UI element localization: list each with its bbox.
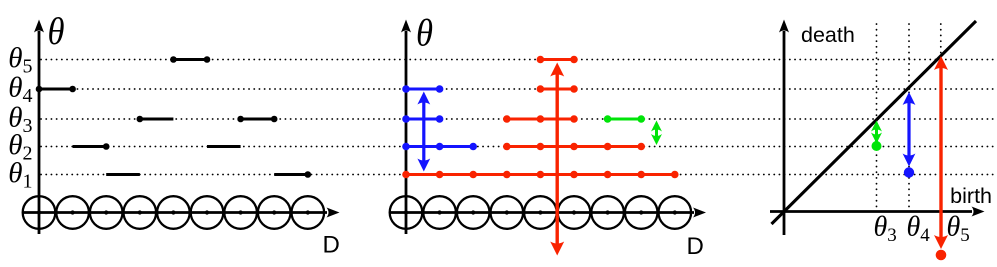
svg-text:death: death (801, 23, 855, 47)
svg-text:D: D (687, 233, 704, 260)
red bar level1 all dots (402, 171, 678, 179)
green bar level3 (604, 115, 645, 123)
cover ball M8 (625, 196, 658, 229)
bar level2 [c2,c3] dot right (73, 143, 110, 150)
cover ball M5 (524, 196, 557, 229)
red bar level3 (503, 115, 578, 123)
blue bar level2 (402, 143, 477, 151)
cover ball L4 (124, 196, 157, 229)
dotted level line theta_5 (41, 59, 996, 61)
red bar level5 (537, 56, 578, 64)
cover ball M4 (491, 196, 524, 229)
svg-text:D: D (323, 232, 340, 259)
cover ball L8 (258, 196, 291, 229)
dotted vertical line birth theta_5 (940, 24, 942, 208)
cover ball L2 (56, 196, 89, 229)
blue bar level3 (402, 115, 443, 123)
dotted level line theta_2 (41, 146, 996, 148)
blue persistence point and double arrow (theta4,theta1) (903, 92, 916, 178)
bar level5 [c5,c6] with end dots (170, 56, 210, 63)
green vertical double arrow (persistence of level3 class) (651, 121, 662, 146)
cover ball M7 (591, 196, 624, 229)
right panel death axis (779, 20, 789, 236)
cover ball M2 (423, 196, 456, 229)
bar level1 [c8,c9] dot right (274, 171, 311, 178)
cover ball M9 (659, 196, 692, 229)
dotted level line theta_3 (41, 118, 996, 120)
svg-text:θ: θ (416, 13, 433, 55)
cover ball L6 (191, 196, 224, 229)
green persistence point and double arrow (theta3,theta2) (871, 121, 882, 152)
cover ball L3 (90, 196, 123, 229)
svg-text:θ: θ (48, 11, 65, 53)
cover ball L1 (23, 196, 56, 229)
dotted level line theta_4 (41, 88, 996, 90)
red persistence point and double arrow (theta5, below axis) (934, 56, 948, 260)
dotted vertical line birth theta_3 (876, 24, 878, 208)
cover ball L7 (224, 196, 257, 229)
left panel D axis (23, 208, 340, 218)
cover ball L5 (157, 196, 190, 229)
blue vertical double arrow (persistence of level4 class) (417, 92, 430, 172)
red vertical double arrow (persistence of level5 class) (550, 63, 564, 256)
dotted level line theta_1 (41, 174, 996, 176)
middle panel D axis (390, 208, 706, 218)
svg-text:birth: birth (950, 184, 992, 208)
left panel theta axis (34, 20, 44, 235)
bar level1 [c3,c4] no dots (106, 173, 140, 176)
bar level2 [c6,c7] no dots (207, 145, 241, 148)
cover ball L9 (292, 196, 325, 229)
dotted vertical line birth theta_4 (908, 24, 910, 208)
blue bar level4 (402, 85, 443, 93)
bar level4 [c1,c2] with end dots (36, 86, 76, 93)
diagonal line y=x (772, 21, 977, 224)
cover ball M6 (558, 196, 591, 229)
bar level3 [c4,c5] dot left (137, 116, 174, 123)
right panel birth axis (770, 207, 985, 217)
red bar level2 (503, 143, 645, 151)
cover ball M1 (390, 196, 423, 229)
bar level3 [c7,c8] with end dots (237, 116, 277, 123)
red bar level4 (537, 85, 578, 93)
middle panel theta axis (401, 20, 411, 235)
cover ball M3 (457, 196, 490, 229)
